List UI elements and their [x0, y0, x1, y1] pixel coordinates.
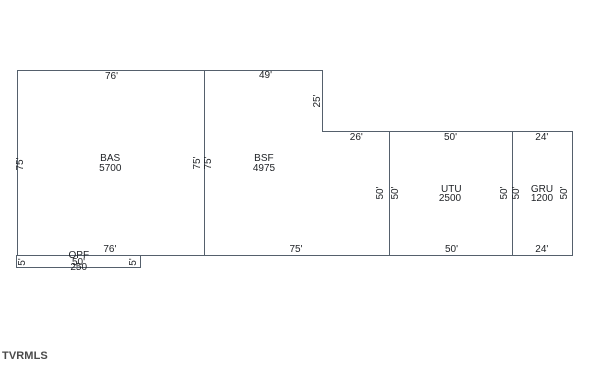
area value 250 [70, 263, 87, 273]
area label BSF [254, 154, 273, 164]
dimension 76' (BAS top) [105, 72, 118, 82]
area label OPF [69, 251, 90, 261]
area value 2500 [439, 194, 461, 204]
wall: divider BAS / BSF [204, 70, 205, 256]
area label GRU [531, 185, 553, 195]
dimension 5' (OPF strip right) [129, 258, 139, 265]
area label BAS [100, 154, 120, 164]
dimension 5' (OPF strip left) [18, 258, 28, 265]
wall: step-down vertical (25' jog) [322, 70, 323, 132]
watermark TVRMLS [2, 350, 48, 362]
wall: left edge [17, 70, 18, 256]
dimension 50' (GRU side of divider at 512) [512, 186, 522, 199]
dimension 25' (step jog) [313, 94, 323, 107]
dimension 24' (GRU top) [535, 133, 548, 143]
area value 5700 [99, 164, 121, 174]
dimension 50' (BSF side of divider at 389) [376, 186, 386, 199]
dimension 50' (UTU top) [444, 133, 457, 143]
wall: bottom edge [17, 255, 573, 256]
area value 4975 [253, 164, 275, 174]
dimension 49' (BSF top) [259, 71, 272, 81]
wall: divider BSF / UTU [389, 131, 390, 256]
dimension 50' (right edge) [560, 186, 570, 199]
wall: OPF strip bottom edge [16, 267, 141, 268]
dimension 75' (BAS side of divider) [193, 156, 203, 169]
area label UTU [441, 185, 462, 195]
area value 1200 [531, 194, 553, 204]
dimension 26' (BSF wing top) [350, 133, 363, 143]
dimension 75' (BSF bottom) [289, 245, 302, 255]
dimension 75' (BSF side of divider) [204, 156, 214, 169]
dimension 50' (UTU side of divider at 389) [391, 186, 401, 199]
wall: OPF strip left edge [16, 255, 17, 268]
wall: divider UTU / GRU [512, 131, 513, 256]
dimension 50' (UTU side of divider at 512) [500, 186, 510, 199]
wall: top edge (BAS + BSF top) [17, 70, 323, 71]
wall: OPF strip right edge [140, 255, 141, 268]
dimension 75' (left edge) [16, 157, 26, 170]
dimension 24' (GRU bottom) [535, 245, 548, 255]
wall: right edge [572, 131, 573, 256]
wall: upper edge of right wing (26'+50'+24') [322, 131, 573, 132]
dimension 76' (BAS bottom) [103, 245, 116, 255]
dimension 50' (OPF strip bottom) [72, 258, 85, 268]
dimension 50' (UTU bottom) [445, 245, 458, 255]
